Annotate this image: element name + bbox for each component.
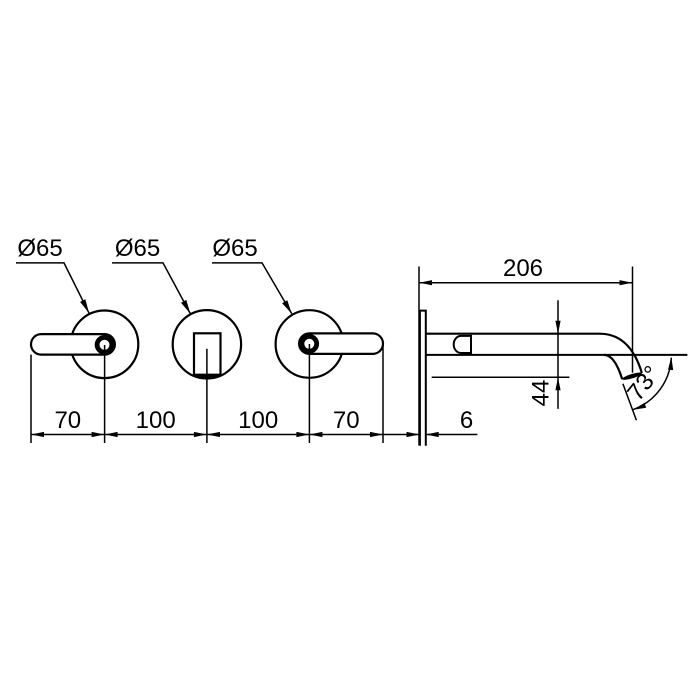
leader line left [16,263,89,313]
dim arrows bottom chain [31,432,439,437]
svg-text:100: 100 [136,407,176,434]
angle arc arrows [633,357,673,410]
svg-text:Ø65: Ø65 [17,235,62,262]
44 ext line [432,376,570,378]
svg-text:206: 206 [503,255,543,282]
spout outlet face [622,371,643,381]
206 dimension line [419,282,633,284]
svg-text:44: 44 [528,380,555,407]
spout outer bend [600,334,642,373]
svg-text:Ø65: Ø65 [115,235,160,262]
left lever handle [31,334,115,355]
right lever handle [299,333,383,354]
leader line right [212,263,292,314]
44 dimension line [557,300,559,409]
right escutcheon circle [276,310,344,378]
svg-text:100: 100 [238,407,278,434]
ext line left lever end [30,355,32,443]
bottom dimension line [31,434,477,436]
svg-text:Ø65: Ø65 [212,235,257,262]
left escutcheon circle [71,311,139,379]
left handle hub [97,337,112,352]
spout inner bend [604,355,622,379]
206 ext line right [632,267,634,373]
angle ext line 73 [623,384,637,421]
center line right [308,344,310,443]
center line left [104,345,106,443]
aerator bullet [454,336,471,353]
spout bottom line and angle reference [426,354,687,356]
206 ext line left [418,267,420,446]
wall plate [420,311,426,446]
spout top line [426,333,600,335]
middle escutcheon circle [173,310,241,378]
svg-text:70: 70 [333,407,360,434]
dim arrows 44 [555,321,560,391]
right handle hub [302,336,317,351]
leader line middle [112,263,190,314]
middle bottom segment fill [194,374,221,379]
dim arrows 206 [419,280,633,285]
center line middle [206,349,208,443]
aerator divider [470,335,472,354]
middle spout body rect [194,333,221,375]
ext line right lever end [382,346,384,444]
angle arc [633,358,671,410]
svg-text:70: 70 [54,407,81,434]
svg-text:6: 6 [460,407,473,434]
leader arrows [80,299,292,314]
